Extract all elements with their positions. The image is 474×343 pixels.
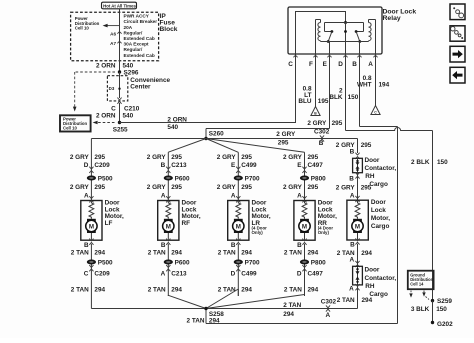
splice S258 [187,307,225,325]
svg-text:2 TAN: 2 TAN [337,297,355,304]
svg-text:C499: C499 [241,162,257,169]
svg-text:2 ORN: 2 ORN [167,117,187,124]
svg-text:A: A [368,61,373,68]
wire label 2 GRY 295 at relay pin E [307,120,342,127]
pass-through grommet P700 lower [234,259,260,266]
svg-text:3 BLK: 3 BLK [411,306,430,313]
motor terminal B [84,239,94,249]
svg-text:2 GRY: 2 GRY [217,184,237,191]
svg-text:A: A [297,192,302,199]
svg-text:Center: Center [130,84,151,91]
svg-text:2 GRY: 2 GRY [147,184,167,191]
label Hot At All Times box [102,2,137,9]
motor terminal B [297,239,307,249]
svg-text:BLK: BLK [329,94,343,101]
svg-text:2 GRY: 2 GRY [70,154,90,161]
connector C210 [111,98,140,113]
splice S296 [118,70,139,77]
svg-text:295: 295 [332,120,343,127]
svg-text:295: 295 [94,154,105,161]
connector C302 (return) [321,299,337,320]
svg-text:20A: 20A [124,25,133,30]
svg-text:B: B [84,242,89,249]
svg-text:Extended Cab: Extended Cab [124,36,155,41]
wire label 2 GRY 295 lower RF [147,184,183,191]
motor M armature RF [163,219,174,233]
wire 2 GRY 295 column RR [304,152,306,200]
svg-text:2 GRY: 2 GRY [283,154,303,161]
resistor element in motor RF [166,201,171,219]
svg-text:C302: C302 [321,299,337,306]
door contactor return symbol [356,268,360,283]
power distribution cell 10 box [60,115,91,131]
splice S259 [431,298,453,305]
svg-text:A7: A7 [110,41,116,46]
svg-text:B: B [350,149,355,156]
dashed reference S255 to power distribution box [93,121,115,125]
splice S260 [204,131,224,141]
wire column LF to S258 [91,296,206,309]
relay pin C [288,55,297,68]
svg-text:Only): Only) [318,230,330,235]
svg-text:A: A [84,192,89,199]
svg-text:150: 150 [436,306,447,313]
relay internal left contact drop [325,23,332,32]
svg-text:E: E [323,61,328,68]
svg-text:Contactor,: Contactor, [365,275,397,282]
svg-text:Cargo: Cargo [369,181,388,188]
svg-text:B: B [161,162,166,169]
svg-text:C499: C499 [241,271,257,278]
svg-text:M: M [89,223,94,230]
svg-text:294: 294 [209,317,220,324]
svg-text:B: B [297,242,302,249]
wire 2 GRY 295 from relay pin E to S260 [206,54,330,139]
wire 0.8 WHT 194 from relay pin A [375,54,377,106]
svg-text:2 GRY: 2 GRY [147,154,167,161]
wire S260 to column LF [91,138,206,140]
svg-text:150: 150 [437,159,448,166]
door contactor feed symbol [356,158,360,172]
svg-text:540: 540 [167,124,178,131]
wire 2 GRY 295 from S260 through C302 to cargo door contactor [206,139,358,154]
svg-text:B: B [350,242,355,249]
relay internal junction node [344,21,347,24]
cargo return contactor terminal A upper [349,257,359,268]
svg-text:194: 194 [379,81,390,88]
wire C210 to S255 [119,103,121,123]
door lock motor box LF [81,201,102,241]
wire through convenience center [119,72,121,98]
motor name Door Lock Motor, LR [252,199,271,235]
door contactor RH cargo (return) box [353,266,363,285]
resistor element in motor LF [89,201,94,219]
svg-text:2 TAN: 2 TAN [148,287,166,294]
svg-text:A: A [350,192,355,199]
wire 3 BLK 150 to ground [432,301,434,323]
dashed reference from S296 to power distribution cell 10 [73,72,115,112]
PWR ACCY circuit breaker text [124,14,158,58]
motor bottom lead RF [167,233,169,240]
svg-text:Motor,: Motor, [371,215,390,222]
resistor element in motor RR [302,201,307,219]
svg-text:150: 150 [348,94,359,101]
door lock motor box RR [294,201,315,241]
svg-text:F: F [309,61,313,68]
svg-text:294: 294 [362,297,373,304]
door lock motor cargo name [371,199,390,230]
svg-text:2 GRY: 2 GRY [217,154,237,161]
pass-through grommet P700 upper [234,175,260,182]
wire 2 TAN from relay pin B down right side to S258 [206,54,398,324]
relay coil L1 (lock) [316,20,321,55]
wire label 2 TAN 294 lower below motor [148,287,183,294]
wire label 3 BLK 150 [411,306,447,313]
wire label 0.8 LT BLU 195 [298,86,329,106]
connector C302 (lock feed) [314,128,330,147]
svg-text:2 BLK: 2 BLK [411,159,430,166]
motor bottom lead LR [237,233,239,240]
svg-text:540: 540 [123,113,134,120]
wire 0.8 LT BLU 195 from relay pin F [315,54,317,107]
svg-text:P600: P600 [175,175,190,182]
resistor element in cargo motor [355,200,360,219]
relay pin E [323,55,332,68]
wire contactor to cargo motor [357,173,359,201]
svg-text:2 TAN: 2 TAN [284,287,302,294]
off-page reference triangle (unlock signal) [371,106,380,115]
wire label 2 TAN 294 upper below motor [218,250,253,257]
svg-text:B: B [349,175,354,182]
button zoom out icon [450,4,465,20]
wire label 2 GRY 295 lower LF [70,184,106,191]
relay internal pin E riser [329,42,331,55]
wire label 2 ORN 540 mid-span [167,117,187,131]
wire S260 diagonal to column RR [206,139,305,153]
convenience center name [130,77,170,91]
cargo return contactor terminal A lower [349,284,360,292]
motor M armature LR [233,219,244,233]
pass-through grommet P500 lower [87,259,113,266]
svg-text:Cell 10: Cell 10 [63,126,77,131]
svg-text:A: A [231,192,236,199]
relay internal wire from pin C [296,12,346,55]
motor bottom lead LF [90,233,92,240]
pass-through grommet P500 upper [87,175,113,182]
svg-text:E: E [231,162,236,169]
svg-text:Only): Only) [252,230,264,235]
terminal D3 [109,86,121,91]
off-page reference triangle (lock signal) [311,107,320,116]
motor M armature RR [299,219,310,233]
wire label 2 TAN 294 upper below motor [284,250,319,257]
svg-text:B: B [352,61,357,68]
svg-text:C209: C209 [94,271,110,278]
wire label 2 TAN 294 before C302 [283,302,301,318]
relay internal right contact drop [356,23,363,32]
svg-text:2 TAN: 2 TAN [284,250,302,257]
svg-text:Block: Block [160,26,178,33]
motor bottom lead RR [304,233,306,240]
svg-text:2 TAN: 2 TAN [71,250,89,257]
svg-text:Cargo: Cargo [369,291,388,298]
svg-text:A: A [161,271,166,278]
svg-text:P600: P600 [175,259,190,266]
wire cargo return to C302 [206,285,358,309]
svg-text:M: M [302,223,307,230]
connector C209 terminal D [84,162,110,173]
wire label 2 TAN 294 lower below motor [71,287,106,294]
relay pin B [352,55,361,68]
wire label 2 GRY 295 lower LR [217,184,253,191]
svg-text:2 TAN: 2 TAN [71,287,89,294]
svg-text:C302: C302 [314,128,330,135]
wire column RF diagonal to S258 [168,295,206,308]
wire column RR diagonal to S258 [206,295,305,309]
motor M armature LF [86,219,97,233]
relay pin A [368,55,377,68]
svg-text:295: 295 [241,184,252,191]
svg-text:S259: S259 [437,298,452,305]
svg-text:B: B [319,140,324,147]
door contactor RH cargo (feed) box [353,158,363,172]
svg-text:Cell 14: Cell 14 [410,282,424,287]
svg-text:C497: C497 [308,162,324,169]
svg-text:C497: C497 [308,271,324,278]
motor terminal B [231,239,241,249]
svg-text:195: 195 [318,98,329,105]
svg-text:C210: C210 [124,105,140,112]
svg-text:P700: P700 [245,175,260,182]
svg-text:Door: Door [371,199,386,206]
svg-text:A: A [349,257,354,264]
door lock motor cargo box [347,200,368,240]
wire label 2 ORN 540 below fuse block [96,63,134,70]
door lock motor box RF [158,201,179,241]
motor terminal A [84,192,94,202]
svg-text:C: C [84,271,89,278]
wire label 2 GRY 295 upper RF [147,154,183,161]
svg-text:294: 294 [308,250,319,257]
button previous arrow [450,67,465,83]
wire 2 TAN 294 below motor RF [167,244,169,296]
svg-text:Extended Cab: Extended Cab [124,53,155,58]
svg-text:540: 540 [123,63,134,70]
svg-text:2 GRY: 2 GRY [283,184,303,191]
svg-text:294: 294 [361,250,372,257]
svg-text:295: 295 [308,184,319,191]
motor terminal B [161,239,171,249]
relay internal left contact [327,30,333,43]
wire fuse block to S296 [119,61,121,72]
svg-text:295: 295 [171,154,182,161]
wire label 2 TAN 294 lower below motor [218,287,253,294]
svg-text:Cell 10: Cell 10 [75,26,90,31]
svg-text:30A Except: 30A Except [124,42,150,47]
relay name [383,8,417,22]
IP fuse block dashed box [71,12,159,61]
svg-text:P800: P800 [311,259,326,266]
motor terminal A [297,192,307,202]
svg-text:D3: D3 [109,86,115,91]
wire from Hot At All Times into IP fuse block [119,9,121,12]
svg-text:2 GRY: 2 GRY [276,131,296,138]
wire 2 GRY 295 column RF [167,152,169,200]
wire S260 diagonal to column RF [168,139,206,153]
connector C499 terminal D [231,265,257,277]
svg-text:Hot At All Times: Hot At All Times [103,3,136,8]
wire label 2 GRY 295 upper LR [217,154,253,161]
svg-text:2 ORN: 2 ORN [96,113,116,120]
relay internal right contact [355,30,361,43]
svg-text:P500: P500 [98,259,113,266]
wire label 2 GRY 295 cargo feed [336,142,372,149]
wire 2 TAN 294 below motor RR [304,244,306,296]
wire label 2 GRY 295 upper LF [70,154,106,161]
svg-text:Regular/: Regular/ [124,47,143,52]
svg-text:PWR ACCY: PWR ACCY [124,14,150,19]
wire label 2 GRY 295 upper RR [283,154,319,161]
wire column LR diagonal to S258 [206,289,238,309]
svg-text:2 TAN: 2 TAN [148,250,166,257]
cargo motor bottom lead [357,233,359,240]
relay internal pin B riser [359,42,361,55]
svg-text:P800: P800 [311,175,326,182]
svg-text:294: 294 [241,250,252,257]
wire 2 GRY 295 column LF [90,139,92,201]
svg-text:294: 294 [241,287,252,294]
pass-through grommet P800 upper [300,175,326,182]
svg-text:2 TAN: 2 TAN [187,317,205,324]
svg-text:2 GRY: 2 GRY [336,184,356,191]
svg-text:D: D [84,162,89,169]
svg-text:2 TAN: 2 TAN [283,302,301,309]
wire 2 BLK 150 from relay pin D to right side [346,54,433,301]
connector C209 terminal C [84,265,110,277]
svg-text:M: M [166,223,171,230]
wire S260 diagonal to column LR [206,139,238,153]
wire 2 ORN 540 from S255 to relay pin C [120,54,296,123]
svg-text:Door: Door [365,157,380,164]
arrow to power distribution cell 10 [103,24,120,28]
pass-through grommet P600 upper [164,175,190,182]
terminal A7 marker [110,41,121,46]
svg-text:C: C [288,61,293,68]
relay internal pin D riser [344,23,347,55]
svg-text:D: D [297,271,302,278]
svg-text:S260: S260 [209,131,224,138]
motor name Door Lock Motor, RR [318,199,337,235]
svg-text:2 GRY: 2 GRY [307,120,327,127]
wire label 2 BLK 150 at relay [329,88,358,101]
svg-text:P500: P500 [98,175,113,182]
ground distribution cell 14 box [408,271,434,290]
svg-text:294: 294 [283,311,294,318]
svg-text:294: 294 [94,287,105,294]
cargo motor terminal B [350,238,360,248]
relay coil L2 (unlock) [369,20,376,55]
wire label 2 TAN 294 below cargo motor [337,250,373,257]
IP fuse block name [160,13,178,33]
svg-text:RH: RH [365,173,375,180]
svg-text:A6: A6 [110,31,116,36]
wire 2 TAN 294 below motor LF [90,244,92,296]
wire label 2 TAN 294 upper below motor [71,250,106,257]
button zoom in icon [450,26,465,41]
svg-text:A: A [349,285,354,292]
svg-text:294: 294 [171,287,182,294]
svg-text:Relay: Relay [383,15,401,22]
svg-text:Circuit Breaker: Circuit Breaker [124,19,158,24]
svg-text:D: D [231,271,236,278]
relay pin D [338,55,347,68]
ground G202 [431,321,453,328]
svg-text:A: A [326,312,331,319]
svg-text:Lock: Lock [371,207,386,214]
door lock motor box LR [228,201,249,241]
svg-text:2 TAN: 2 TAN [218,250,236,257]
wire label 2 ORN 540 above S255 [96,113,134,120]
svg-text:295: 295 [278,139,289,146]
svg-text:M: M [355,223,360,230]
wire label 2 TAN 294 lower below motor [284,287,319,294]
splice S255 [113,121,128,134]
terminal A6 marker [110,31,121,36]
door contactor RH cargo name [365,157,397,188]
svg-text:Contactor,: Contactor, [365,165,397,172]
connector C499 terminal E [231,162,257,173]
svg-text:295: 295 [94,184,105,191]
svg-text:M: M [236,223,241,230]
relay internal top bus [325,22,364,24]
svg-text:B: B [161,242,166,249]
svg-text:Cargo: Cargo [371,223,390,230]
svg-text:295: 295 [308,154,319,161]
cargo motor M armature [352,219,363,233]
svg-text:2 ORN: 2 ORN [96,63,116,70]
wire label 2 TAN 294 cargo return [337,297,373,304]
wire through fuse block (PWR ACCY circuit breaker) [119,12,121,61]
svg-text:Door: Door [365,267,380,274]
svg-text:P700: P700 [245,259,260,266]
relay internal bottom bus [321,41,369,43]
connector C213 terminal B [161,162,187,173]
svg-text:C209: C209 [94,162,110,169]
wire 2 TAN 294 below motor LR [237,244,239,296]
pass-through grommet P800 lower [300,259,326,266]
svg-text:E: E [297,162,302,169]
motor name Door Lock Motor, LF [105,199,124,227]
cargo contactor terminal B upper [350,149,360,159]
pass-through grommet P600 lower [164,259,190,266]
relay U1 Door Lock Relay box [288,7,382,54]
cargo contactor terminal B lower [349,172,359,182]
door contactor RH cargo return name [365,267,397,299]
svg-text:295: 295 [171,184,182,191]
relay pin F [309,55,318,68]
connector C497 terminal D [297,265,323,277]
button next arrow [450,46,465,62]
motor name Door Lock Motor, RF [182,199,201,227]
wire label 2 TAN 294 upper below motor [148,250,183,257]
dashed reference arrows to ground distribution [409,291,429,300]
svg-text:A: A [161,192,166,199]
power distribution reference text in fuse block [75,16,100,30]
wire label 2 GRY 295 before C302 [276,131,296,146]
svg-text:295: 295 [361,184,372,191]
motor terminal A [231,192,241,202]
svg-text:B: B [231,242,236,249]
